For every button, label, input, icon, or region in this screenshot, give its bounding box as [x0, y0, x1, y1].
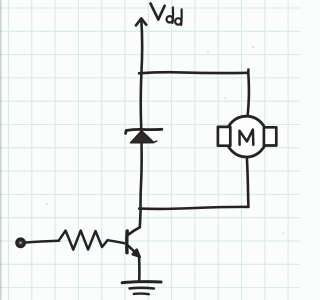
- input terminal center highlight: [20, 242, 22, 244]
- transistor Q1 base bar: [125, 231, 129, 253]
- diode D1 scribble tail: [154, 141, 158, 143]
- wire: right rail lower (motor to branch): [247, 157, 249, 207]
- label Vdd: letter V: [151, 4, 165, 20]
- diode D1 cathode bar: [126, 129, 162, 133]
- motor brush terminal right: [264, 127, 276, 145]
- motor M1 circle: [226, 116, 267, 157]
- motor brush terminal left: [218, 127, 230, 146]
- label Vdd: second d: [175, 18, 181, 24]
- transistor Q1 emitter lead: [128, 246, 138, 255]
- scan edge left: [0, 0, 2, 300]
- wire: right rail upper (to motor): [248, 70, 249, 116]
- wire: top branch horizontal: [139, 72, 248, 73]
- transistor Q1 emitter arrowhead: [132, 249, 140, 257]
- Vdd arrowhead: [136, 18, 146, 25]
- wire: lower branch horizontal: [139, 207, 248, 209]
- ground bar 1: [122, 282, 161, 283]
- ground bar 2: [130, 287, 154, 290]
- diode D1 triangle (anode): [131, 131, 154, 143]
- wire: input terminal to resistor: [25, 241, 59, 243]
- wire: emitter to ground: [138, 257, 141, 282]
- wire: main vertical rail Vdd to collector: [140, 19, 142, 227]
- wire: resistor to base: [108, 240, 124, 243]
- ground bar 3: [134, 292, 149, 295]
- label Vdd: first d: [167, 16, 173, 22]
- transistor Q1 collector lead: [128, 227, 140, 234]
- resistor R1 zigzag: [59, 231, 108, 250]
- motor label M: [240, 130, 254, 145]
- paper speckles: [46, 46, 283, 233]
- input terminal circle: [17, 239, 25, 247]
